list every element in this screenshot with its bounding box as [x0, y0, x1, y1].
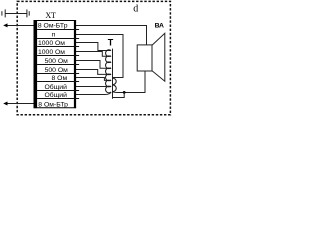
- bottom edge: [34, 107, 77, 109]
- connector X (detachable connection): [2, 9, 29, 17]
- wire junction to core bottom: [113, 92, 125, 97]
- transformer core: [112, 49, 114, 99]
- wire row8 tap: [76, 86, 108, 88]
- svg-text:8 Ом-БТр: 8 Ом-БТр: [38, 101, 68, 108]
- svg-text:ХТ: ХТ: [45, 11, 56, 20]
- wire row1 to speaker top: [76, 26, 147, 45]
- transformer primary winding: [106, 50, 111, 93]
- right thick bar: [74, 20, 76, 108]
- wire row3 tap top: [76, 43, 111, 51]
- wire row4 tap: [76, 52, 108, 57]
- svg-text:Т: Т: [108, 37, 114, 47]
- wire row5 tap: [76, 61, 108, 69]
- left thick bar: [34, 20, 38, 108]
- svg-text:ВА: ВА: [155, 23, 164, 30]
- wire row2 to secondary top: [76, 35, 123, 78]
- arrowhead top: [3, 23, 7, 27]
- svg-text:1000 Ом: 1000 Ом: [38, 49, 65, 56]
- wire secondary bottom to speaker bottom: [112, 71, 145, 93]
- enclosure dashed box: [17, 1, 170, 114]
- svg-text:8 Ом-БТр: 8 Ом-БТр: [38, 23, 68, 30]
- wire arrow line out (bottom): [5, 103, 34, 105]
- arrowhead bottom: [3, 102, 7, 106]
- svg-text:1000 Ом: 1000 Ом: [38, 40, 65, 47]
- junction dot: [123, 91, 126, 94]
- wire arrow line in (top): [5, 25, 34, 27]
- wire row7 tap: [76, 78, 108, 81]
- svg-text:500 Ом: 500 Ом: [45, 58, 69, 65]
- wire row9 to winding bottom: [76, 92, 111, 94]
- svg-text:500 Ом: 500 Ом: [45, 67, 69, 74]
- svg-text:d: d: [133, 4, 138, 15]
- transformer secondary winding: [112, 78, 116, 92]
- svg-text:Общий: Общий: [45, 83, 68, 91]
- svg-text:п: п: [52, 32, 56, 39]
- top edge: [34, 20, 77, 22]
- svg-text:Общий: Общий: [45, 91, 68, 99]
- wire row6 tap: [76, 70, 108, 75]
- row dividers: [37, 30, 79, 99]
- svg-text:8 Ом: 8 Ом: [52, 75, 68, 82]
- speaker cone: [152, 33, 165, 81]
- speaker driver rectangle: [137, 45, 152, 71]
- terminal block XT: [34, 20, 80, 108]
